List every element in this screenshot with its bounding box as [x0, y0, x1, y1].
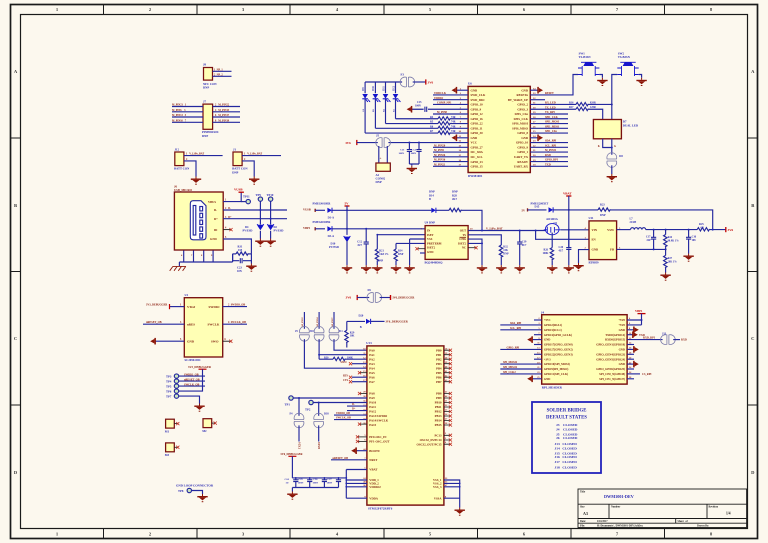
wire 3V6_DEBUGGER (F6 output) [380, 295, 416, 300]
U6 right pin numbers [533, 87, 536, 166]
charger U9 BQ24040DSQ DNP [421, 221, 474, 265]
svg-text:GPIO_GEN4(GPIO23): GPIO_GEN4(GPIO23) [596, 352, 625, 356]
svg-text:GPIO_15: GPIO_15 [471, 165, 484, 169]
capacitor C26 100N [313, 478, 328, 488]
svg-text:74R: 74R [451, 121, 456, 124]
resistor R21 1K8 1% DNP (U9 ISET) [375, 234, 389, 265]
wire J4 GPIO23 stub [627, 353, 634, 355]
svg-text:SWD_CLK: SWD_CLK [471, 93, 487, 97]
svg-text:GPIO11(SPI_CLK): GPIO11(SPI_CLK) [544, 372, 568, 376]
svg-text:3 D+: 3 D+ [225, 216, 232, 219]
ground (C16) [683, 254, 693, 262]
svg-text:TX_LED: TX_LED [545, 106, 556, 109]
svg-text:20K 1%: 20K 1% [668, 260, 678, 263]
U13 PF1 no-connect [356, 440, 367, 443]
wire M_PIN26 (U6 pin 15) [433, 154, 468, 157]
wire J4 +5V1 stub [534, 319, 542, 321]
svg-text:SDA_RPI: SDA_RPI [545, 140, 556, 143]
MCU U13 STM32F072 [366, 341, 444, 510]
svg-text:PB3: PB3 [436, 362, 442, 366]
svg-text:D+: D+ [352, 408, 356, 411]
wire RXD_RPI to solder bridge J13 [627, 337, 663, 340]
LED color labels [362, 108, 395, 112]
svg-text:TP9: TP9 [256, 193, 262, 197]
svg-text:GND: GND [471, 136, 479, 140]
svg-text:BATT CON: BATT CON [174, 167, 190, 171]
svg-text:3V3_DEBUGGER: 3V3_DEBUGGER [146, 304, 167, 307]
svg-text:SCL_RPI: SCL_RPI [510, 327, 521, 330]
svg-text:PA9: PA9 [369, 396, 375, 400]
svg-text:VSS_3: VSS_3 [433, 485, 442, 489]
wire nRESET_OB to U1 nRES [143, 321, 184, 324]
svg-text:M2: M2 [202, 429, 207, 433]
diode D20 [347, 314, 409, 328]
svg-text:DWM1001-DEV: DWM1001-DEV [604, 494, 634, 499]
svg-text:D-: D- [214, 208, 217, 212]
svg-text:DNP: DNP [376, 180, 382, 184]
wire SPI_MOSI2 to J4 [500, 361, 541, 364]
svg-text:SPI_CE0_N(GPIO8): SPI_CE0_N(GPIO8) [599, 372, 625, 376]
svg-text:D10: D10 [372, 85, 375, 90]
U13 PA6 RTS wire [343, 374, 367, 379]
svg-text:C: C [14, 336, 17, 341]
svg-text:OSC32_OUT/PC15: OSC32_OUT/PC15 [416, 442, 442, 446]
diode D3-A PMEG4010ER [313, 221, 426, 238]
svg-text:M_PIN20: M_PIN20 [434, 144, 446, 147]
svg-text:SWDIO_OB: SWDIO_OB [336, 412, 350, 415]
wire M_PIN8 (U6 pin 6) [433, 111, 468, 114]
svg-text:RESET: RESET [545, 92, 554, 95]
filter F4 (TXD1) [290, 398, 304, 449]
U13 PA13 SWDIO_OB wire [334, 412, 367, 415]
svg-text:B: B [360, 326, 362, 329]
svg-text:SWDIO_OB: SWDIO_OB [184, 373, 199, 376]
wire SPI_MISO2 to J4 [500, 366, 541, 369]
svg-text:PA6: PA6 [369, 375, 375, 379]
svg-text:M_PIN13 5: M_PIN13 5 [172, 114, 187, 117]
svg-text:TXD1: TXD1 [298, 442, 301, 449]
svg-text:1/4: 1/4 [726, 512, 731, 516]
ground port (J4 pin16 GND) [627, 346, 639, 353]
svg-text:nRES: nRES [187, 322, 195, 326]
svg-text:nRESET_OB: nRESET_OB [184, 378, 200, 381]
ground port (J4 pin22 GND) [627, 361, 639, 368]
resistor R14 DNP (U9 PRETERM) [394, 243, 404, 265]
wire U11 GND to ground [573, 250, 589, 272]
svg-text:GPIO_11: GPIO_11 [471, 127, 484, 131]
wire 3V3_DEBUGGER to U1 VTref [146, 304, 184, 310]
wire CS_RPI (J4 SPI_CE0) [627, 373, 651, 376]
U13 PA14 SWCLK_OB wire [334, 417, 367, 420]
svg-text:M_PIN8: M_PIN8 [437, 111, 448, 114]
svg-text:D14: D14 [429, 194, 434, 197]
svg-text:F3: F3 [401, 72, 405, 76]
svg-text:820R: 820R [590, 101, 596, 104]
ground (U13 VSS) [455, 508, 465, 516]
wire U9 ISET net [377, 234, 425, 236]
svg-text:CTS: CTS [343, 379, 349, 382]
power flag 3V6_DEBUGGER (MCU supply) [280, 453, 303, 478]
svg-text:1 V_LiPo_BAT: 1 V_LiPo_BAT [186, 153, 204, 156]
svg-text:TP1: TP1 [285, 403, 291, 407]
wire M_PIN21 (J7 pin 1) [172, 104, 203, 107]
resistor R5 74R (U6 pin 8) [386, 121, 469, 125]
svg-text:DNP: DNP [600, 214, 606, 217]
svg-text:TXD: TXD [545, 163, 551, 166]
ground port (J4 pin8 GND) [627, 327, 639, 334]
svg-text:74R: 74R [451, 125, 456, 128]
wire SCL_RPI (U6 pin 22) [530, 144, 568, 147]
svg-text:D12: D12 [392, 85, 395, 90]
wire NP_1 (J8 pin 1) [213, 68, 232, 71]
svg-text:DNP: DNP [202, 134, 208, 138]
wire TP9 to D4 [259, 201, 261, 224]
wire FB node [617, 248, 667, 250]
header J4 RPI [541, 311, 627, 390]
svg-text:3V6_DEBUGGER: 3V6_DEBUGGER [392, 297, 415, 300]
svg-text:GPIO_8: GPIO_8 [517, 131, 528, 135]
test point TP1 + wire TXD1 to PA9 [285, 396, 367, 407]
svg-text:SWO: SWO [341, 361, 347, 364]
wire J4 +3V3 stub [534, 358, 542, 360]
capacitor C16 10U [686, 230, 697, 254]
test point TP3 [166, 373, 205, 378]
svg-text:U13: U13 [366, 341, 372, 345]
ground (C24-C27) [287, 492, 297, 500]
svg-text:PV/ESD: PV/ESD [243, 229, 253, 232]
svg-text:J1: J1 [233, 148, 237, 152]
svg-text:100N: 100N [298, 482, 304, 485]
svg-text:4U7: 4U7 [522, 244, 527, 247]
svg-text:M_PIN4: M_PIN4 [316, 317, 319, 327]
U6 pin 1 GND stub + ground port [452, 87, 469, 94]
svg-text:SPIS_MOSI: SPIS_MOSI [512, 122, 529, 126]
capacitor C20 4U7 (VBAT) [559, 230, 572, 265]
wire M_PIN22 (J7 pin 2) [213, 104, 240, 107]
module U6 DWM1001 [468, 82, 530, 178]
svg-text:GPIO_16: GPIO_16 [471, 117, 484, 121]
svg-text:VBAT: VBAT [563, 191, 572, 195]
wire J12 pin 2 to ground [184, 158, 196, 176]
capacitor C14 [411, 143, 422, 164]
wire VDD supply rail [292, 477, 346, 479]
J4 right pin numbers [629, 318, 632, 379]
wire SPI1_CLK (U6 pin 28) [530, 116, 568, 119]
capacitor C19 4U7 [517, 231, 527, 266]
U13 PA7 CTS wire [343, 379, 367, 384]
svg-text:V_LiPo_BAT: V_LiPo_BAT [486, 226, 503, 230]
svg-text:R28: R28 [452, 194, 457, 197]
svg-text:B: B [14, 203, 17, 208]
svg-text:2 SWDIO_OB: 2 SWDIO_OB [228, 304, 245, 307]
svg-text:D8: D8 [619, 155, 623, 158]
wire VBUS to VUSB flag [223, 192, 241, 202]
J6 shield pins to chassis [179, 251, 232, 267]
svg-text:M_PIN5: M_PIN5 [434, 149, 445, 152]
resistor R32 10K DNP [499, 245, 509, 265]
ground (D4) [255, 231, 265, 247]
svg-text:STM32F072RBT6: STM32F072RBT6 [368, 506, 393, 510]
title block [578, 489, 747, 528]
svg-text:GPIO2(SDA1): GPIO2(SDA1) [544, 323, 562, 327]
svg-text:GND: GND [210, 237, 218, 241]
svg-text:SPI_CLK2: SPI_CLK2 [503, 371, 516, 374]
svg-text:PMEG2005ET: PMEG2005ET [531, 202, 549, 205]
svg-text:D-: D- [352, 403, 355, 406]
wire GND pin J6 [223, 236, 251, 254]
svg-text:TP5: TP5 [166, 384, 172, 388]
ground (J1) [249, 177, 259, 185]
svg-text:J16 CLOSED: J16 CLOSED [555, 455, 578, 459]
svg-text:2 D-: 2 D- [225, 207, 231, 210]
svg-text:D+: D+ [214, 217, 218, 221]
svg-text:PC13: PC13 [435, 433, 442, 437]
svg-text:TP11: TP11 [243, 195, 250, 199]
svg-text:GND: GND [427, 250, 433, 254]
svg-text:GPIO17(GPIO_GEN0): GPIO17(GPIO_GEN0) [544, 343, 573, 347]
resistor R24 90.9K 1% [664, 230, 680, 250]
svg-text:PB4: PB4 [436, 366, 442, 370]
capacitor C17 22P [646, 230, 656, 250]
power flag 3V6 (F6 input) [346, 295, 370, 300]
svg-text:1 NP_1: 1 NP_1 [214, 68, 223, 71]
svg-text:FB: FB [610, 248, 614, 252]
wire SWDCLK (U6 pin 2) [433, 92, 468, 95]
svg-text:DNP: DNP [232, 170, 238, 174]
wire D+ net [223, 216, 287, 219]
ground (J12) [191, 177, 201, 185]
svg-text:RXD: RXD [681, 339, 687, 342]
svg-text:DNP: DNP [452, 191, 458, 194]
svg-text:SWDCLK: SWDCLK [434, 92, 447, 95]
svg-text:SPI1_CLK: SPI1_CLK [545, 116, 559, 119]
diode D15 PMEG2005ET [531, 202, 570, 212]
svg-text:M_PIN7: M_PIN7 [331, 317, 334, 327]
svg-text:Drawn By:: Drawn By: [697, 525, 709, 528]
svg-text:M_PIN6 3: M_PIN6 3 [172, 109, 186, 112]
svg-text:GND: GND [521, 136, 529, 140]
J4 left pin numbers [537, 318, 540, 379]
connector J6 USB_MICRO [174, 185, 223, 251]
svg-text:SWD_DIO: SWD_DIO [471, 98, 486, 102]
svg-text:nRESET_OB: nRESET_OB [146, 321, 162, 324]
pin ID no-connect [223, 227, 232, 232]
svg-text:PB1: PB1 [436, 353, 442, 357]
svg-text:100N: 100N [399, 152, 405, 155]
capacitor C13 [399, 143, 413, 164]
svg-text:PA15: PA15 [369, 423, 376, 427]
wire M_PIN6 (J7 pin 3) [172, 109, 203, 112]
svg-text:74R: 74R [451, 130, 456, 133]
connector J8 NFC CON [203, 63, 217, 90]
ground (C13/C14) [407, 164, 419, 174]
wire U9 TS to R32 [468, 235, 501, 245]
solder bridge J13 [661, 332, 676, 344]
wire M_PIN5 (U6 pin 14) [433, 149, 468, 152]
svg-text:D18: D18 [324, 413, 329, 416]
svg-text:J5: J5 [376, 134, 380, 138]
svg-text:GPIO_10: GPIO_10 [471, 103, 484, 107]
svg-text:M_PIN26: M_PIN26 [434, 154, 446, 157]
svg-text:GND: GND [619, 348, 625, 352]
svg-text:PMEG4010ER: PMEG4010ER [313, 221, 332, 224]
svg-text:GPIO_30: GPIO_30 [471, 131, 484, 135]
svg-text:J8: J8 [203, 63, 207, 67]
wire nRESET_OB to NRST [331, 457, 367, 460]
svg-text:SWO: SWO [211, 339, 219, 343]
svg-text:M3: M3 [165, 453, 170, 457]
resistor R4 74R (U6 pin 7) [396, 116, 469, 120]
resistor R29 10K [345, 321, 355, 347]
wire J4 GPIO25 stub [627, 368, 634, 370]
switch SW1 TS-B3SN [578, 51, 599, 76]
svg-text:2 M_PIN22: 2 M_PIN22 [215, 104, 230, 107]
svg-text:4 M_PIN15: 4 M_PIN15 [215, 109, 230, 112]
ground (R14) [391, 265, 401, 273]
svg-text:VUSB: VUSB [303, 207, 311, 211]
svg-text:PF1-OSC_OUT: PF1-OSC_OUT [369, 440, 389, 444]
wire M_PIN31 (U6 pin 21) [530, 149, 568, 152]
svg-text:U1: U1 [185, 293, 189, 297]
resistor R27 20K 1% [664, 249, 678, 272]
svg-text:DNP: DNP [503, 252, 509, 255]
regulator U11 RT8059 [585, 216, 622, 264]
svg-text:UART_TX: UART_TX [514, 155, 529, 159]
wire M_PIN16 (U6 pin 16) [433, 159, 468, 162]
wire RX_LED + resistor R16 820R (U6 pin 31) [530, 101, 613, 106]
svg-text:74R: 74R [451, 116, 456, 119]
svg-text:SPI_MOSI2: SPI_MOSI2 [503, 361, 518, 364]
TVS diode D10 PV/ESD [329, 236, 350, 265]
wire TXD (U6 pin 18) [530, 163, 568, 166]
wire V_LiPo_BAT (J1 pin 1) [242, 153, 281, 156]
wire SWDIO (U6 pin 3) [433, 97, 468, 100]
svg-text:3V6: 3V6 [428, 80, 434, 84]
svg-text:+: + [380, 157, 382, 161]
svg-text:VSW: VSW [607, 228, 614, 232]
svg-text:GND LOOP CONNECTOR: GND LOOP CONNECTOR [176, 484, 214, 488]
ground port (J4 pin25 GND) [527, 376, 542, 383]
svg-text:PB15: PB15 [435, 423, 442, 427]
svg-text:10K: 10K [350, 335, 355, 338]
svg-text:D20: D20 [359, 314, 364, 317]
svg-text:VIN: VIN [592, 228, 598, 232]
wire SCL_RPI to J4 [500, 327, 541, 330]
U13 PA8 no-connect [358, 392, 367, 395]
mounting hole M1 [165, 419, 180, 433]
svg-text:GPIO_GEN1(GPIO18): GPIO_GEN1(GPIO18) [596, 343, 625, 347]
svg-text:B: B [751, 203, 754, 208]
svg-text:VBP1: VBP1 [635, 309, 643, 313]
svg-text:DEFAULT STATES: DEFAULT STATES [546, 416, 587, 421]
svg-text:GPIO_1: GPIO_1 [517, 150, 528, 154]
svg-text:1 V_LiPo_BAT: 1 V_LiPo_BAT [244, 153, 262, 156]
ground (D10) [342, 265, 352, 273]
wire J4 SPI_CE1 stub [627, 378, 634, 380]
LED D12 [392, 82, 400, 119]
svg-text:TX_RPI: TX_RPI [545, 111, 555, 114]
svg-text:10N: 10N [237, 270, 242, 273]
svg-text:VBAT: VBAT [369, 468, 377, 472]
svg-text:VDDA: VDDA [369, 496, 378, 500]
svg-text:D15: D15 [535, 206, 540, 209]
wire V_LiPo_BAT (J12 pin 1) [184, 153, 223, 156]
svg-text:D1-A: D1-A [328, 217, 334, 220]
ground (R27) [660, 273, 670, 281]
svg-text:8 M_PIN19: 8 M_PIN19 [215, 120, 230, 123]
diode D1-A PMEG4010ER [313, 203, 426, 220]
wire F3 to 3V6 flag [413, 81, 426, 83]
svg-text:3V3_DEBUGGER: 3V3_DEBUGGER [188, 365, 212, 369]
svg-text:+5V0: +5V0 [618, 323, 625, 327]
test point TP5 [166, 383, 205, 388]
svg-text:Number: Number [611, 505, 621, 508]
svg-text:CS_RPI: CS_RPI [642, 373, 651, 376]
TVS diode D4 PV/ESD [243, 224, 264, 232]
svg-text:GPIO_23: GPIO_23 [471, 160, 484, 164]
svg-text:nRESET_OB: nRESET_OB [333, 457, 349, 460]
svg-text:10U: 10U [692, 239, 697, 242]
dual LED D7 [593, 120, 638, 139]
svg-text:4U7: 4U7 [559, 249, 564, 252]
wire GPIO_RPI (U6 pin 19) [530, 159, 568, 162]
svg-text:PB7: PB7 [436, 380, 442, 384]
ground (U9 VSS) [404, 265, 414, 273]
svg-text:SDA_RPI: SDA_RPI [510, 322, 521, 325]
svg-text:C: C [751, 336, 754, 341]
svg-text:GPIO_27: GPIO_27 [471, 146, 484, 150]
wire J4 GPIO24 stub [627, 358, 634, 360]
svg-text:DNP: DNP [398, 253, 404, 256]
svg-text:GPIO22(GPIO_GEN3): GPIO22(GPIO_GEN3) [544, 352, 573, 356]
svg-text:GPIO4(GPIO_GCLK): GPIO4(GPIO_GCLK) [544, 333, 572, 337]
port TXD (J4 TXD0) [627, 331, 645, 338]
test point TP8 [178, 488, 203, 494]
wire J11 to PA0 [334, 339, 367, 350]
svg-text:GPIO_RPI: GPIO_RPI [545, 159, 558, 162]
svg-text:PA4: PA4 [369, 366, 375, 370]
svg-text:M_PIN31: M_PIN31 [545, 149, 557, 152]
svg-text:TP3: TP3 [166, 374, 172, 378]
svg-text:PB5: PB5 [436, 371, 442, 375]
wire COMP_NP1 (U6 pin 4) [433, 102, 468, 105]
svg-text:1U: 1U [286, 482, 289, 485]
svg-text:PB2: PB2 [436, 357, 442, 361]
svg-text:AO3401A: AO3401A [546, 218, 558, 221]
svg-text:TP8: TP8 [178, 489, 184, 493]
svg-text:DWM1001: DWM1001 [468, 174, 483, 178]
svg-text:Revision: Revision [709, 505, 719, 508]
wire D- net [223, 207, 287, 210]
svg-text:M_PIN16: M_PIN16 [434, 159, 446, 162]
test point TP7 to ground [166, 394, 200, 404]
svg-text:2U2H: 2U2H [630, 221, 638, 224]
svg-text:K: K [598, 145, 600, 148]
svg-text:READY: READY [517, 160, 529, 164]
test point TP11 [241, 195, 250, 204]
resistor R7 74R (U6 pin 10) [365, 130, 468, 134]
svg-text:100N: 100N [313, 482, 319, 485]
svg-text:PB8: PB8 [436, 392, 442, 396]
svg-text:COMP_NP1: COMP_NP1 [437, 102, 452, 105]
svg-text:UART_RX: UART_RX [514, 165, 529, 169]
svg-text:B: B [429, 198, 431, 201]
solder bridge default states table [532, 402, 601, 473]
ground (D8) [607, 165, 617, 182]
svg-text:PB13: PB13 [435, 414, 442, 418]
U9 NC pin no-connect [468, 246, 478, 249]
svg-text:3V6: 3V6 [728, 228, 734, 232]
